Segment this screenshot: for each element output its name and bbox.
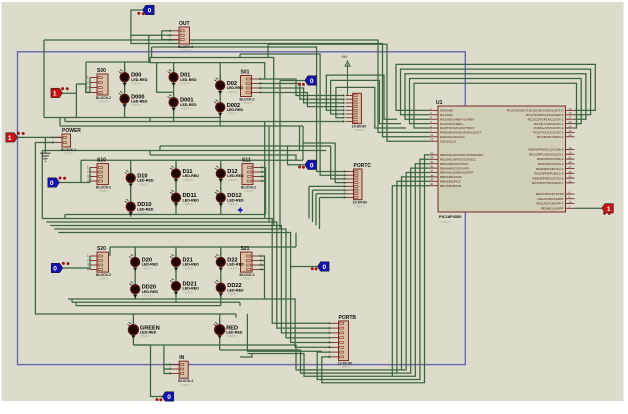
wire railb jog2	[64, 118, 66, 122]
wire RED top drop	[219, 314, 221, 325]
svg-text:RC6/TX/CK/C2OUT-3: RC6/TX/CK/C2OUT-3	[533, 131, 563, 135]
svg-text:<TEXT>: <TEXT>	[227, 178, 238, 182]
svg-text:+5V: +5V	[341, 55, 348, 59]
svg-text:<TEXT>: <TEXT>	[98, 189, 109, 193]
svg-text:1: 1	[87, 254, 89, 258]
svg-text:S01: S01	[241, 70, 250, 76]
wire power pin1 wire	[18, 136, 63, 138]
wire RST to terminal 1	[575, 207, 602, 209]
wire D001 feed	[157, 63, 174, 93]
connector S21	[240, 246, 263, 281]
wire PORTC p4 src	[303, 142, 335, 144]
wire row1 top rail	[86, 58, 274, 122]
terminal 0 (row2 right)	[305, 160, 317, 169]
wire PORTC p7 feed	[316, 193, 347, 195]
svg-text:<TEXT>: <TEXT>	[131, 103, 142, 107]
svg-text:4: 4	[87, 268, 89, 272]
wire S01p3 to CONN p3	[259, 88, 345, 103]
svg-text:1: 1	[169, 29, 171, 33]
svg-text:<TEXT>: <TEXT>	[354, 128, 365, 132]
wire T0 row2 wire	[59, 182, 90, 184]
wire GREEN top drop	[132, 314, 134, 325]
terminal 1 (chip right)	[602, 204, 614, 213]
wire row1 left drop	[85, 62, 87, 93]
svg-text:RC1/T1OSI/CCP2/UOE/C2: RC1/T1OSI/CCP2/UOE/C2	[526, 113, 564, 117]
svg-text:8: 8	[344, 196, 346, 200]
wire DD10 bot drop	[130, 211, 132, 215]
wire bus4 to PORTB p5	[58, 233, 331, 343]
wire RB0 bottom loop	[322, 155, 430, 383]
wire S01p4 to CONN p4	[259, 93, 345, 107]
svg-text:<TEXT>: <TEXT>	[227, 292, 238, 296]
wire PORTC p8 feed	[320, 197, 347, 199]
svg-text:<TEXT>: <TEXT>	[137, 182, 148, 186]
svg-text:<TEXT>: <TEXT>	[183, 202, 194, 206]
wire bus3b end	[239, 302, 241, 306]
svg-text:2: 2	[87, 259, 89, 263]
wire RB5 drop	[402, 177, 430, 370]
svg-text:2: 2	[169, 33, 171, 37]
wire LED pair link	[220, 270, 222, 280]
svg-text:4: 4	[260, 91, 262, 95]
sheet border (blue)	[18, 52, 466, 365]
wire IN terminal wire	[151, 345, 163, 397]
connector IN	[169, 355, 193, 387]
svg-text:<TEXT>: <TEXT>	[440, 220, 451, 224]
wire loop0 RA0-RC0	[396, 64, 595, 110]
wire S11 p4	[260, 180, 266, 182]
wire S10 pin bus	[89, 168, 91, 183]
wire S00 fan v2	[86, 84, 90, 93]
wire LED pair link	[219, 93, 221, 99]
svg-text:<TEXT>: <TEXT>	[242, 277, 253, 281]
svg-text:4: 4	[261, 179, 263, 183]
wire row2 top rail	[81, 159, 303, 161]
svg-text:8: 8	[329, 355, 331, 359]
svg-text:3: 3	[169, 38, 171, 42]
wire OUT terminal to RA6	[131, 10, 430, 137]
svg-text:RA0/AN0: RA0/AN0	[440, 109, 453, 113]
svg-text:3: 3	[87, 86, 89, 90]
LED D12	[215, 164, 244, 184]
wire row1 bot rail b	[65, 121, 276, 123]
svg-text:RA2/AN2/VREF-/CVREF: RA2/AN2/VREF-/CVREF	[440, 117, 474, 121]
wire LED pair link	[130, 186, 132, 199]
wire IN p1 wire	[164, 364, 172, 366]
wire LED pair link	[124, 85, 126, 91]
svg-text:PIC18F4550: PIC18F4550	[439, 214, 462, 219]
wire CONN p7 loop	[336, 87, 406, 128]
wire RB2 bottom loop	[252, 164, 430, 377]
wire tie353	[247, 353, 252, 355]
wire row2 bot rail	[65, 214, 266, 216]
svg-text:<TEXT>: <TEXT>	[142, 294, 153, 298]
svg-text:2: 2	[329, 326, 331, 330]
svg-text:RC4/D-/VM/C2OUT-1: RC4/D-/VM/C2OUT-1	[534, 122, 564, 126]
wire p4 src drop	[302, 143, 304, 160]
svg-text:3: 3	[169, 372, 171, 376]
wire line to RA7	[268, 44, 430, 141]
connector PORTC	[344, 163, 372, 208]
svg-text:RA3/AN3/VREF+: RA3/AN3/VREF+	[440, 122, 464, 126]
wire PORTC p6 feed	[313, 189, 347, 191]
wire D12 top drop	[220, 160, 222, 168]
wire RED bot drop	[219, 335, 221, 351]
wire CONN p5 loop	[326, 75, 397, 119]
LED D01	[168, 67, 197, 87]
wire S01p1 to CONN p1	[259, 79, 345, 96]
wire railb jog	[149, 151, 151, 156]
wire IN p3 wire	[164, 373, 172, 375]
wire row1-row2 link a	[299, 126, 301, 151]
svg-text:0: 0	[323, 264, 327, 271]
svg-text:3: 3	[329, 331, 331, 335]
svg-text:2: 2	[87, 170, 89, 174]
ground	[40, 153, 50, 161]
wire railc left jog	[59, 118, 61, 127]
wire D11 top drop	[175, 160, 177, 168]
wire bus1 to PORTB p2	[46, 222, 331, 328]
svg-text:3: 3	[87, 263, 89, 267]
wire stair src3a	[267, 44, 269, 57]
svg-text:RD4/SPP4/DT/C2-4: RD4/SPP4/DT/C2-4	[536, 167, 564, 171]
wire rail353 left end	[240, 354, 252, 358]
connector S01	[240, 70, 262, 106]
LED D001	[168, 92, 197, 112]
wire S00 pin bus	[89, 78, 91, 93]
terminal 0 (row3 right)	[318, 262, 330, 271]
svg-text:OUT: OUT	[179, 21, 190, 27]
connector S10	[87, 158, 111, 194]
wire LED pair link	[175, 182, 177, 190]
svg-text:<TEXT>: <TEXT>	[98, 100, 109, 104]
wire S21 p3	[259, 264, 265, 266]
LED DD21	[170, 276, 199, 296]
wire p5 drop	[308, 186, 310, 218]
wire jog	[149, 118, 151, 122]
wire D02 top drop	[219, 63, 221, 81]
LED D02	[214, 75, 243, 95]
svg-text:U1: U1	[436, 100, 443, 106]
wire bus2 to PORTB p3	[50, 226, 331, 333]
wire bus3c jog	[75, 302, 77, 305]
terminal 0 (row2 left)	[48, 178, 60, 187]
svg-text:<TEXT>: <TEXT>	[137, 211, 148, 215]
svg-text:0: 0	[53, 266, 57, 273]
svg-text:5: 5	[329, 341, 331, 345]
svg-text:1: 1	[260, 254, 262, 258]
wire RB1 bottom loop	[317, 159, 430, 379]
svg-text:POWER: POWER	[62, 128, 81, 134]
wire S20 pin bus	[89, 256, 91, 270]
terminal 1 (POWER)	[6, 133, 18, 142]
svg-text:1: 1	[607, 206, 611, 213]
svg-text:1: 1	[261, 166, 263, 170]
LED D21	[170, 252, 199, 272]
wire RB4 bottom loop	[133, 173, 429, 370]
svg-text:RE3/MCLR/VPP: RE3/MCLR/VPP	[541, 207, 564, 211]
wire p6 drop	[312, 190, 314, 222]
wire top line to PORTC p2	[240, 54, 347, 175]
svg-text:RA6/OSC2/CLKO: RA6/OSC2/CLKO	[440, 135, 465, 139]
LED DD12	[215, 188, 244, 208]
svg-text:3: 3	[261, 175, 263, 179]
wire S11 bus	[260, 168, 266, 215]
svg-text:<TEXT>: <TEXT>	[242, 101, 253, 105]
connector CONND	[343, 93, 367, 132]
svg-text:<TEXT>: <TEXT>	[227, 266, 238, 270]
wire bus0 to PORTB p1	[42, 219, 331, 324]
wire S00 fan v1	[75, 84, 77, 118]
svg-text:RE1/AN6/CK2SPP: RE1/AN6/CK2SPP	[538, 197, 564, 201]
wire T0 row2R wire	[288, 164, 305, 166]
wire ground stem	[44, 137, 46, 153]
svg-text:OSC1/CLKI: OSC1/CLKI	[440, 139, 456, 143]
svg-text:S20: S20	[97, 246, 106, 252]
wire OUT pin3	[162, 39, 172, 41]
svg-text:S11: S11	[242, 158, 251, 164]
wire left tall rail to green row	[35, 143, 75, 315]
wire PORTC p4 feed	[335, 143, 346, 183]
svg-text:RC0/T1OSO/T13CKI/CM/UOE/C1OUT-: RC0/T1OSO/T13CKI/CM/UOE/C1OUT-O	[507, 109, 564, 113]
svg-text:<TEXT>: <TEXT>	[63, 152, 74, 156]
svg-text:2: 2	[261, 170, 263, 174]
wire T0 row1R wire	[280, 80, 305, 82]
LED D002	[214, 97, 243, 117]
wire RB7 drop	[392, 186, 430, 377]
wire row2 rail a	[42, 150, 326, 152]
svg-text:RD1/SPP1/SDA2/C1IN-1: RD1/SPP1/SDA2/C1IN-1	[529, 152, 564, 156]
LED D20	[129, 252, 158, 272]
wire tie	[133, 344, 150, 346]
wire DD22 bot drop	[220, 292, 222, 306]
svg-text:1: 1	[87, 76, 89, 80]
svg-text:1: 1	[53, 91, 57, 98]
wire stair src2	[239, 54, 241, 58]
svg-text:<TEXT>: <TEXT>	[340, 365, 351, 369]
wire DD21 bot drop	[175, 291, 177, 303]
svg-text:<TEXT>: <TEXT>	[183, 291, 194, 295]
svg-text:<TEXT>: <TEXT>	[140, 334, 151, 338]
wire row2 rail b	[150, 155, 296, 160]
wire top line to PORTC p1	[152, 47, 347, 172]
svg-text:RE0/AN5/CK1SPP0: RE0/AN5/CK1SPP0	[536, 192, 564, 196]
wire top line L1 to RA5	[44, 40, 430, 132]
wire OUT pin bus	[161, 31, 163, 40]
svg-text:<TEXT>: <TEXT>	[131, 82, 142, 86]
wire IN bus	[163, 345, 165, 374]
wire loop4 RA4-RC4	[414, 83, 577, 128]
wire left jog	[109, 247, 111, 256]
wire D22 top drop	[220, 247, 222, 258]
LED DD11	[170, 188, 199, 208]
terminal 0 (bottom, near IN)	[162, 392, 174, 401]
wire loop1 RA1-RC1	[401, 69, 591, 115]
svg-text:<TEXT>: <TEXT>	[227, 90, 238, 94]
wire loop2 RA2-RC2	[405, 74, 586, 119]
svg-text:4: 4	[329, 336, 331, 340]
wire left rail x44	[43, 40, 45, 118]
svg-text:0: 0	[310, 162, 314, 169]
svg-text:PORTB: PORTB	[339, 315, 357, 321]
svg-text:1: 1	[8, 135, 12, 142]
wire row3 top rail	[110, 246, 296, 248]
svg-text:<TEXT>: <TEXT>	[180, 82, 191, 86]
svg-text:RB2/AN8/INT2/VMO: RB2/AN8/INT2/VMO	[440, 162, 469, 166]
svg-text:RD5/SPP5/P1B/C1-5: RD5/SPP5/P1B/C1-5	[534, 172, 564, 176]
svg-text:RB4/AN11/KBI0/CSSPP: RB4/AN11/KBI0/CSSPP	[440, 171, 473, 175]
wire col vert a	[264, 122, 266, 219]
svg-text:<TEXT>: <TEXT>	[243, 189, 254, 193]
wire LED pair link	[175, 270, 177, 278]
LED RED	[214, 320, 243, 340]
svg-text:RA5/AN4/SS/HLVDIN/C2OUT: RA5/AN4/SS/HLVDIN/C2OUT	[440, 131, 481, 135]
svg-text:2: 2	[169, 367, 171, 371]
svg-text:RD3/SPP3/C2IN-3: RD3/SPP3/C2IN-3	[538, 162, 564, 166]
wire LED pair link	[220, 182, 222, 190]
wire PORTC p5 feed	[309, 185, 347, 187]
wire GREEN bot drop	[132, 335, 134, 346]
wire CONN p6 loop	[331, 80, 401, 123]
LED DD10	[125, 197, 154, 217]
wire loop3 RA3-RC3	[410, 79, 582, 124]
wire bus3 line b	[72, 301, 240, 303]
svg-text:<TEXT>: <TEXT>	[180, 383, 191, 387]
svg-text:RB3/AN9/CCP2/VPO: RB3/AN9/CCP2/VPO	[440, 166, 470, 170]
svg-text:0: 0	[167, 394, 171, 401]
power +5V symbol	[341, 55, 350, 96]
wire row1 rail2	[149, 63, 265, 79]
wire DD20 bot drop	[134, 294, 136, 300]
LED GREEN	[127, 320, 159, 340]
svg-text:6: 6	[329, 346, 331, 350]
wire DD11 bot drop	[175, 202, 177, 215]
wire OUT pin2	[162, 34, 172, 36]
svg-text:3: 3	[87, 175, 89, 179]
svg-text:2: 2	[52, 141, 54, 145]
connector PORTB	[329, 315, 357, 369]
wire T0 drop	[279, 81, 281, 122]
wire IN p2 wire	[164, 368, 172, 370]
wire bus3 to PORTB p6	[68, 299, 332, 347]
svg-text:RB5/KBI1/PGM: RB5/KBI1/PGM	[440, 175, 462, 179]
svg-text:<TEXT>: <TEXT>	[98, 277, 109, 281]
wire jog	[64, 215, 66, 219]
wire OUT drop to row1 rail	[148, 35, 150, 62]
svg-text:1: 1	[52, 136, 54, 140]
svg-text:<TEXT>: <TEXT>	[355, 204, 366, 208]
wire bus3 line c	[76, 305, 221, 307]
wire D002 bot drop	[219, 112, 221, 126]
wire DD12 bot drop	[220, 202, 222, 215]
svg-text:<TEXT>: <TEXT>	[142, 266, 153, 270]
svg-text:RB7/KBI3/PGD: RB7/KBI3/PGD	[440, 184, 462, 188]
wire row1-row2 link b	[302, 126, 304, 143]
wire D01 top drop	[173, 63, 175, 72]
svg-text:<TEXT>: <TEXT>	[180, 107, 191, 111]
svg-text:<TEXT>: <TEXT>	[180, 49, 191, 53]
connector S20	[87, 246, 111, 281]
svg-text:1: 1	[329, 322, 331, 326]
wire OUT pin1	[162, 30, 172, 32]
svg-text:S21: S21	[241, 246, 250, 252]
svg-text:2: 2	[87, 81, 89, 85]
wire col vert c	[273, 122, 275, 226]
wire D000 bot drop	[124, 104, 126, 118]
svg-text:1: 1	[260, 77, 262, 81]
terminal 0 (top, near OUT)	[143, 5, 155, 14]
wire LED pair link	[173, 85, 175, 94]
connector OUT	[169, 21, 193, 53]
svg-text:<TEXT>: <TEXT>	[227, 112, 238, 116]
wire row1 bot rail c	[60, 125, 303, 127]
svg-text:RC5/D+/VP/C2OUT-2: RC5/D+/VP/C2OUT-2	[533, 126, 563, 130]
wire row2 rail c	[160, 145, 331, 147]
LED DD22	[215, 278, 244, 298]
wire T0 row3 wire	[63, 267, 90, 269]
svg-text:S10: S10	[97, 158, 106, 164]
wire S21 p4	[259, 269, 265, 271]
svg-text:7: 7	[329, 350, 331, 354]
svg-text:RC7/RX/DT/SDO-4: RC7/RX/DT/SDO-4	[537, 135, 564, 139]
svg-text:RB6/KBI2/PGC: RB6/KBI2/PGC	[440, 180, 462, 184]
wire S00 fan h1	[76, 83, 85, 85]
wire S21 bus	[259, 256, 265, 299]
wire bus3b jog	[71, 299, 73, 302]
wire p8 drop	[319, 198, 321, 230]
wire D20 top drop	[134, 247, 136, 258]
wire row3 rail to bus	[295, 233, 297, 248]
svg-text:<TEXT>: <TEXT>	[226, 334, 237, 338]
origin marker	[237, 207, 243, 213]
svg-text:<TEXT>: <TEXT>	[183, 266, 194, 270]
wire col vert b	[268, 126, 270, 222]
wire T0 row3R wire	[291, 266, 318, 268]
terminal 1 (row1 left)	[51, 88, 63, 97]
microcontroller U1 PIC18F4550	[430, 100, 575, 224]
svg-text:RB1/AN10/INT1/SCK/SCL: RB1/AN10/INT1/SCK/SCL	[440, 158, 477, 162]
wire stair src1	[151, 47, 153, 58]
svg-text:0: 0	[50, 180, 54, 187]
svg-text:3: 3	[260, 263, 262, 267]
wire row2 left drop	[80, 160, 82, 182]
svg-text:RD6/SPP6/P1C/TX2-6: RD6/SPP6/P1C/TX2-6	[532, 176, 563, 180]
terminal 0 (row3 left)	[51, 263, 63, 272]
svg-text:IN: IN	[179, 355, 184, 361]
terminal 0 (row1 right)	[305, 76, 317, 85]
wire S01p2 to CONN p2	[259, 84, 345, 100]
wire bus left drop	[41, 151, 43, 219]
wire D21 top drop	[175, 247, 177, 258]
svg-text:RE2/AN7/OESPP-7: RE2/AN7/OESPP-7	[536, 202, 563, 206]
wire col vert d	[279, 122, 281, 230]
connector POWER	[52, 128, 81, 156]
svg-text:3: 3	[260, 86, 262, 90]
svg-text:0: 0	[310, 78, 314, 85]
wire row1 bot rail a	[44, 117, 220, 119]
wire T0 row2R drop	[287, 146, 289, 165]
LED D000	[119, 89, 148, 109]
wire OUT feed	[131, 34, 162, 36]
wire S21 p2	[259, 260, 265, 262]
wire RB6 drop	[397, 181, 430, 373]
wire PORTC p3 feed	[331, 146, 347, 179]
svg-text:RA4/T0CKI/C1OUT/RCV: RA4/T0CKI/C1OUT/RCV	[440, 126, 475, 130]
svg-text:4: 4	[260, 268, 262, 272]
svg-text:RD0/SPP0/SCL2/C1IN+0: RD0/SPP0/SCL2/C1IN+0	[529, 148, 564, 152]
svg-text:1: 1	[169, 363, 171, 367]
svg-text:<TEXT>: <TEXT>	[227, 202, 238, 206]
